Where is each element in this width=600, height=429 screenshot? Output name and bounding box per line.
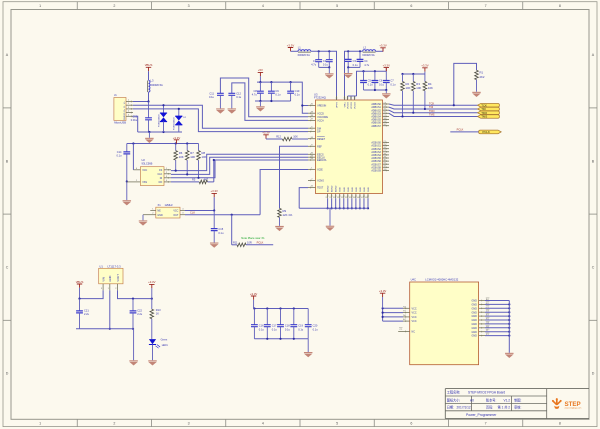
svg-text:7: 7: [485, 4, 487, 8]
svg-text:VCC: VCC: [412, 320, 417, 323]
svg-text:12K 1%: 12K 1%: [283, 213, 293, 217]
resistor R11: [233, 240, 252, 246]
ground (C12): [228, 108, 237, 113]
svg-text:PGB1010603: PGB1010603: [158, 114, 160, 127]
svg-text:93LC56B: 93LC56B: [142, 161, 153, 165]
wire R11 to PCLK: [232, 215, 237, 245]
capacitor C5: [360, 71, 373, 90]
svg-text:LT1117-3.3: LT1117-3.3: [108, 265, 122, 269]
wire PCLK to port: [450, 128, 478, 132]
USB connector J1: [114, 93, 126, 124]
power flag +3.3V (U4C): [379, 289, 387, 308]
svg-text:VOUT: VOUT: [116, 274, 120, 282]
svg-text:6: 6: [410, 4, 412, 8]
svg-text:第 1 共 2: 第 1 共 2: [498, 404, 511, 409]
power flag +3.3V (C5 group): [383, 63, 391, 71]
port TCK: [478, 103, 500, 107]
EEPROM U2 93LC56B: [140, 158, 164, 186]
svg-text:GND: GND: [157, 214, 163, 217]
svg-text:工程名称:: 工程名称:: [447, 390, 461, 395]
svg-text:GND: GND: [348, 187, 350, 192]
ground (C1/C2): [325, 73, 334, 78]
wire D- : J1 pin2 to DM: [133, 105, 308, 128]
inductor L2: [362, 45, 375, 57]
U3 bottom pin stubs: [325, 194, 368, 199]
power flag +3.3V (X1 VCC): [211, 189, 219, 210]
svg-text:+3.3V: +3.3V: [173, 136, 181, 140]
wire ground rail (U1): [76, 329, 134, 361]
svg-text:www.stepfpga.com: www.stepfpga.com: [565, 407, 582, 410]
svg-text:+3.3V: +3.3V: [250, 292, 258, 296]
svg-text:制图:: 制图:: [514, 397, 521, 402]
wire PCLK net stub: [246, 241, 273, 245]
svg-text:FT232HQ: FT232HQ: [314, 96, 326, 100]
svg-text:日期:: 日期:: [447, 404, 454, 409]
U3 top pin stubs: [336, 96, 356, 100]
svg-text:C6: C6: [379, 79, 383, 83]
capacitor C18: [277, 309, 290, 339]
svg-text:600R/0.5A: 600R/0.5A: [362, 53, 375, 57]
svg-text:GND: GND: [368, 187, 370, 192]
wire TDO: [389, 109, 478, 114]
ground (LED): [148, 360, 157, 365]
capacitor C14: [116, 144, 130, 182]
svg-text:GND: GND: [344, 187, 346, 192]
svg-text:VCC: VCC: [412, 312, 417, 315]
svg-text:6: 6: [410, 422, 412, 426]
ground (U1 rail): [129, 360, 138, 365]
inductor L3: [148, 79, 163, 93]
capacitor C8: [252, 82, 264, 101]
wire EECLK: U2 CLK to U3: [171, 157, 308, 175]
svg-text:TMS: TMS: [481, 115, 487, 119]
wire VBUS flag to L3: [148, 71, 150, 80]
wire U2 VCC to rail: [132, 144, 134, 170]
svg-text:C: C: [592, 266, 595, 270]
wire cap bank bottom rail: [254, 338, 308, 352]
svg-text:X1: X1: [158, 203, 162, 207]
resistor R3: [412, 74, 422, 113]
svg-text:A0: A0: [470, 398, 474, 402]
capacitor C2: [323, 51, 333, 67]
svg-text:C14: C14: [117, 150, 122, 154]
svg-text:C: C: [6, 266, 9, 270]
power flag VBUS (top): [145, 63, 153, 71]
X1 pin stubs: [143, 209, 185, 215]
wire L3 to VBUS node: [148, 92, 150, 101]
capacitor C9: [268, 82, 281, 101]
svg-text:XCIE: XCIE: [317, 169, 323, 172]
svg-text:0.1u: 0.1u: [209, 95, 215, 99]
ground (X1 GND): [139, 215, 148, 226]
svg-text:C19: C19: [298, 324, 303, 328]
U4C right pin stubs and GND wires: [479, 298, 511, 337]
resistor R4: [423, 74, 433, 109]
svg-text:LCMXO2-4000HC-4MG132: LCMXO2-4000HC-4MG132: [425, 278, 459, 282]
svg-text:GND: GND: [124, 115, 126, 120]
svg-text:+3.3V: +3.3V: [383, 63, 391, 67]
svg-text:1: 1: [39, 4, 41, 8]
wire VCCIO bar to C5 rail: [348, 71, 364, 100]
svg-text:0.1u: 0.1u: [218, 231, 224, 235]
wire C14 to ground: [126, 180, 128, 200]
svg-text:版本号:: 版本号:: [486, 397, 497, 402]
svg-text:3: 3: [188, 4, 190, 8]
svg-text:DI: DI: [160, 177, 163, 180]
svg-text:C16: C16: [259, 324, 264, 328]
svg-text:C11: C11: [209, 92, 214, 96]
svg-text:PCLK: PCLK: [457, 128, 464, 132]
svg-text:PGB1010603: PGB1010603: [174, 117, 176, 130]
svg-text:ADBUS7: ADBUS7: [371, 125, 381, 128]
wire ground rail (C8-C10): [255, 100, 291, 106]
svg-text:GND: GND: [471, 335, 477, 338]
svg-text:2: 2: [113, 422, 115, 426]
svg-text:10R: 10R: [247, 240, 252, 244]
svg-text:0.01u: 0.01u: [131, 118, 138, 122]
inductor L1: [298, 45, 311, 57]
svg-text:0.1u: 0.1u: [295, 92, 301, 96]
svg-text:D-: D-: [124, 105, 126, 108]
power flag +3.3V (cap bank): [250, 292, 258, 309]
wire TVS ground rail: [138, 131, 182, 133]
svg-text:U2: U2: [142, 158, 146, 162]
svg-text:0.1u: 0.1u: [236, 95, 242, 99]
svg-text:C21: C21: [84, 309, 89, 313]
svg-text:VPLL: VPLL: [345, 101, 347, 107]
wire C5-C7 ground rail: [364, 89, 388, 93]
svg-text:2: 2: [113, 4, 115, 8]
svg-text:VIN: VIN: [102, 277, 106, 282]
svg-text:C12: C12: [236, 92, 241, 96]
svg-text:R5: R5: [192, 177, 196, 181]
svg-text:5: 5: [336, 422, 338, 426]
wire REF pin to R9: [280, 146, 309, 208]
power flag +3.3V (RESET pullup R12): [262, 131, 270, 139]
capacitor C16: [251, 309, 264, 339]
U3 right pin stubs ACBUS0-9: [383, 141, 390, 171]
svg-text:10K: 10K: [416, 86, 421, 90]
svg-text:C17: C17: [272, 324, 277, 328]
svg-text:4: 4: [262, 4, 264, 8]
svg-text:10K: 10K: [202, 155, 207, 159]
svg-text:VCC: VCC: [142, 169, 147, 172]
svg-text:VBUS: VBUS: [76, 280, 84, 284]
svg-text:GND: GND: [340, 187, 342, 192]
resistor R12: [266, 135, 308, 141]
U2 pin stubs: [127, 168, 171, 183]
svg-text:0.1u: 0.1u: [353, 63, 359, 67]
ground (R9): [275, 226, 284, 231]
svg-text:图纸大小:: 图纸大小:: [447, 397, 461, 402]
svg-text:GND: GND: [471, 315, 477, 318]
note text: [241, 236, 265, 240]
wire U2 DO through R5: [171, 181, 199, 183]
svg-text:CLK: CLK: [190, 211, 195, 215]
svg-text:VCCIO: VCCIO: [355, 102, 357, 109]
wire R1 to TCK: [454, 63, 477, 105]
svg-text:8: 8: [559, 422, 561, 426]
wire TEST pin to ground rail: [299, 188, 308, 209]
ground (cap bank): [304, 352, 313, 357]
wire pullup rail: [401, 73, 425, 75]
svg-text:+3.3V: +3.3V: [262, 131, 270, 135]
svg-text:VCCIO: VCCIO: [351, 102, 353, 109]
U3 right pin stubs ADBUS4-7: [383, 102, 390, 126]
svg-text:0.1u: 0.1u: [275, 92, 281, 96]
svg-text:MicroUSB: MicroUSB: [114, 121, 126, 125]
svg-text:0.1u: 0.1u: [298, 327, 304, 331]
capacitor C15: [211, 211, 224, 243]
svg-text:C4: C4: [364, 59, 368, 63]
svg-text:10K: 10K: [179, 155, 184, 159]
wire cap bank top rail: [253, 307, 308, 309]
svg-text:10K: 10K: [293, 135, 298, 139]
svg-text:NE: NE: [157, 210, 161, 213]
svg-text:Green: Green: [161, 338, 168, 341]
ground (C5 group): [382, 93, 391, 98]
capacitor C7: [383, 71, 396, 90]
svg-text:2K2: 2K2: [480, 75, 485, 79]
svg-text:AGND: AGND: [331, 185, 334, 192]
svg-text:U1: U1: [99, 265, 103, 269]
ground (USB shield): [145, 132, 154, 143]
svg-text:PCLK: PCLK: [257, 241, 264, 245]
wire +3.3V rail (C5-C7): [362, 70, 386, 72]
svg-text:GND: GND: [356, 187, 358, 192]
svg-text:0.1u: 0.1u: [313, 327, 319, 331]
svg-text:PCLK: PCLK: [483, 130, 490, 134]
wire TDI: [389, 105, 478, 110]
svg-text:R11: R11: [233, 240, 238, 244]
svg-text:C8: C8: [253, 89, 257, 93]
svg-text:C22: C22: [137, 309, 142, 313]
svg-text:GND: GND: [471, 331, 477, 334]
svg-text:VBUS: VBUS: [145, 63, 153, 67]
svg-text:12MHz: 12MHz: [165, 203, 174, 207]
svg-text:600R/0.5A: 600R/0.5A: [151, 83, 164, 87]
svg-text:Power_Programmer: Power_Programmer: [466, 413, 497, 417]
svg-text:C9: C9: [275, 89, 279, 93]
ground (C3/C4): [344, 73, 353, 78]
capacitor C13: [131, 102, 152, 133]
wire R5 to EEDATA: [213, 159, 215, 182]
wire VOUT to +3.3V: [118, 290, 153, 299]
svg-text:2017/1/12: 2017/1/12: [457, 405, 471, 409]
capacitor C10: [287, 82, 300, 101]
svg-text:GND: GND: [471, 327, 477, 330]
svg-text:R12: R12: [276, 135, 281, 139]
ground (C14/U2): [123, 200, 132, 205]
ground (R1): [472, 92, 481, 97]
resistor R7: [185, 144, 195, 175]
wire VIN: [78, 290, 103, 299]
power flag +3.3V (JTAG pullups): [421, 64, 429, 74]
TVS diode D2: [174, 108, 187, 132]
svg-text:0.1u: 0.1u: [116, 153, 122, 157]
svg-text:3: 3: [188, 422, 190, 426]
svg-text:V1.2: V1.2: [504, 398, 511, 402]
svg-text:4.7u: 4.7u: [364, 63, 370, 67]
ground (U3 GND bundle): [326, 208, 335, 231]
svg-text:7: 7: [485, 422, 487, 426]
wire TCK: [389, 101, 478, 106]
wire U4C ground bus: [508, 301, 510, 353]
wire EEDATA: U2 DI to U3: [171, 160, 308, 179]
resistor R5: [192, 177, 214, 183]
svg-text:VSS: VSS: [142, 181, 147, 184]
svg-text:GND: GND: [471, 300, 477, 303]
svg-text:0.1u: 0.1u: [272, 327, 278, 331]
svg-text:VCC: VCC: [412, 307, 417, 310]
U4C left pin stubs: [398, 306, 410, 332]
wire U1 GND down: [109, 290, 111, 330]
ground (C8 group): [256, 106, 265, 111]
STEP logo: [552, 398, 582, 409]
wire CLK: X1 OUT to U3 XCIE: [185, 170, 308, 216]
capacitor C11: [209, 78, 308, 117]
svg-text:+3.3V: +3.3V: [211, 189, 219, 193]
port PCLK: [479, 130, 502, 134]
svg-text:600R/0.5A: 600R/0.5A: [298, 53, 311, 57]
svg-text:REF: REF: [317, 145, 322, 148]
svg-text:+3.3V: +3.3V: [379, 289, 387, 293]
svg-text:EEDATA: EEDATA: [317, 159, 327, 162]
svg-text:DO: DO: [159, 181, 163, 184]
ground (U4C): [505, 353, 514, 358]
svg-text:GND: GND: [108, 276, 112, 282]
power flag VBUS (U1 input): [76, 280, 84, 299]
IC U4C LCMXO2-4000HC-4MG132: [410, 278, 479, 365]
U1 pin stubs: [101, 284, 118, 291]
svg-text:U4C: U4C: [411, 278, 416, 282]
svg-text:GND: GND: [360, 187, 362, 192]
wire L1 to VPHY: [311, 50, 337, 100]
svg-text:AGND: AGND: [335, 185, 338, 192]
svg-text:C20: C20: [313, 324, 318, 328]
svg-text:C18: C18: [285, 324, 290, 328]
power flag +3.3V (U2 rail): [173, 136, 181, 144]
wire EECS: U2 CS to U3: [171, 154, 308, 171]
J1 pin stubs: [126, 100, 133, 118]
resistor R2: [401, 74, 411, 116]
U3 left pin stubs: [308, 104, 316, 189]
power flag +3.3V (L2): [376, 44, 387, 52]
svg-text:+3.3V: +3.3V: [287, 43, 295, 47]
svg-text:GND: GND: [471, 304, 477, 307]
svg-text:VREGIN: VREGIN: [317, 105, 326, 108]
svg-text:Note Place near X1: Note Place near X1: [241, 236, 265, 240]
svg-text:D: D: [6, 372, 9, 376]
wire D+ : J1 pin3 to DP: [133, 109, 308, 132]
svg-text:C10: C10: [295, 89, 300, 93]
resistor R1: [475, 70, 485, 92]
svg-text:4: 4: [262, 422, 264, 426]
capacitor C22: [130, 299, 143, 330]
svg-text:GND: GND: [471, 307, 477, 310]
capacitor C17: [264, 309, 277, 339]
svg-text:CS: CS: [159, 169, 163, 172]
svg-text:0.1u: 0.1u: [259, 327, 265, 331]
svg-text:NC: NC: [412, 331, 416, 334]
IC U3 FT232HQ: [314, 92, 383, 193]
svg-text:XCNO: XCNO: [317, 180, 324, 183]
port TDO: [478, 111, 500, 115]
power flag +3.3V (U1 output): [148, 280, 156, 298]
svg-text:CLK: CLK: [158, 173, 163, 176]
svg-text:8: 8: [559, 4, 561, 8]
port TDI: [478, 107, 500, 111]
power flag +3.3V (L1): [287, 43, 298, 51]
svg-text:0.1u: 0.1u: [323, 63, 329, 67]
svg-text:GND: GND: [352, 187, 354, 192]
svg-text:+3.3V: +3.3V: [421, 64, 429, 68]
wire VBUS: J1 pin1 to L3 node: [133, 100, 150, 102]
capacitor C1: [311, 51, 322, 67]
svg-text:C7: C7: [390, 79, 394, 83]
svg-text:VPHY: VPHY: [337, 101, 339, 107]
svg-text:1K: 1K: [156, 312, 159, 316]
capacitor C4: [357, 51, 370, 67]
title block: [445, 389, 589, 419]
svg-text:5: 5: [336, 4, 338, 8]
svg-text:C15: C15: [218, 227, 223, 231]
capacitor C19: [290, 309, 303, 339]
svg-text:2.2u: 2.2u: [137, 312, 143, 316]
svg-text:0.1u: 0.1u: [285, 327, 291, 331]
svg-text:1: 1: [39, 422, 41, 426]
ground (C11): [216, 108, 225, 113]
wire C3/C4 to ground: [347, 66, 360, 73]
svg-text:RESET: RESET: [317, 138, 326, 141]
svg-text:C3: C3: [353, 59, 357, 63]
regulator U1 LT1117-3.3: [99, 265, 123, 284]
svg-text:VCC: VCC: [412, 316, 417, 319]
wire U3 bottom GND bundle to ground rail: [299, 198, 369, 209]
wire J1 GND pin to ground rail: [133, 116, 138, 132]
svg-text:10K: 10K: [406, 86, 411, 90]
svg-text:VCCA: VCCA: [317, 120, 324, 123]
svg-text:4.7u: 4.7u: [311, 63, 317, 67]
power flag +5V (C8 group): [258, 68, 263, 82]
resistor R9: [278, 208, 293, 226]
svg-text:4.7u: 4.7u: [252, 92, 258, 96]
svg-text:GND: GND: [471, 311, 477, 314]
svg-text:+3.3V: +3.3V: [148, 280, 156, 284]
wire VPLL to L2: [345, 50, 363, 100]
svg-text:TEST: TEST: [317, 187, 324, 190]
capacitor C12: [228, 83, 308, 121]
svg-text:VCCIO: VCCIO: [348, 102, 350, 109]
svg-text:GND: GND: [364, 187, 366, 192]
capacitor C20: [305, 309, 318, 339]
resistor R6: [174, 144, 184, 171]
svg-text:STEP-MXO2 FPGA Board: STEP-MXO2 FPGA Board: [468, 391, 505, 395]
svg-text:VCC: VCC: [173, 210, 178, 213]
capacitor C3: [345, 51, 358, 67]
svg-text:DP: DP: [317, 131, 321, 134]
svg-text:+5V: +5V: [258, 68, 263, 72]
svg-text:ACBUS9: ACBUS9: [371, 170, 381, 173]
wire TMS: [389, 113, 478, 118]
capacitor C21: [76, 299, 90, 329]
port TMS: [478, 115, 500, 119]
svg-text:D: D: [592, 372, 595, 376]
ground (C15): [210, 243, 219, 248]
wire U4C VCC feed: [382, 307, 404, 321]
svg-text:R13: R13: [156, 308, 161, 312]
svg-text:2.2u: 2.2u: [84, 312, 90, 316]
